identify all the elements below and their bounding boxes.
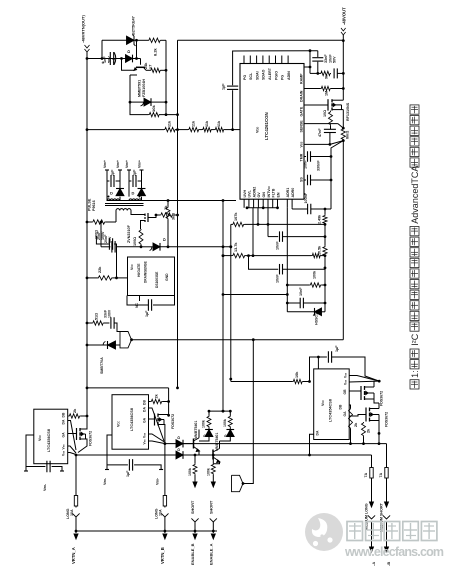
svg-text:ADR1: ADR1 <box>286 188 290 198</box>
capacitor 1uF rt <box>328 345 379 381</box>
svg-text:AdvancedTCA: AdvancedTCA <box>410 166 420 224</box>
capacitor 33nF <box>312 51 328 75</box>
svg-text:SHORT: SHORT <box>191 500 195 514</box>
svg-text:PULSE: PULSE <box>88 198 92 211</box>
svg-text:TMR: TMR <box>300 153 304 161</box>
wire vss branch <box>330 141 344 209</box>
resistor 8.2k <box>137 38 167 56</box>
svg-text:P9616: P9616 <box>92 200 96 211</box>
wire GA stub B <box>149 418 155 420</box>
svg-text:VBB+: VBB+ <box>125 160 129 168</box>
svg-text:100V: 100V <box>101 231 105 240</box>
svg-text:100k: 100k <box>202 420 206 428</box>
svg-text:FZB1004H: FZB1004H <box>142 79 146 97</box>
wire da stub C <box>310 434 314 455</box>
ic U5 LTC4354CS8 C box <box>314 369 350 440</box>
supply2 rails <box>127 170 144 201</box>
resistor 100ohm src <box>133 229 143 248</box>
capacitor 20nF 50V <box>101 222 141 253</box>
svg-text:10.5k: 10.5k <box>318 245 322 255</box>
svg-text:ADIN: ADIN <box>287 71 291 80</box>
svg-text:VCC: VCC <box>38 435 42 441</box>
resistor 22k <box>87 266 128 280</box>
wire vss stub <box>304 141 343 146</box>
svg-text:SHORT: SHORT <box>209 500 213 514</box>
svg-text:1:: 1: <box>410 370 420 378</box>
watermark elecfans logo <box>305 513 444 559</box>
transistor Q1 FMMT591 <box>122 59 147 98</box>
wire ov drop <box>257 208 260 226</box>
svg-text:EN: EN <box>276 192 280 197</box>
resistor 100k r4 <box>206 455 215 476</box>
transistor Q6 MMBT5401 <box>190 421 200 455</box>
svg-text:OV: OV <box>257 192 261 198</box>
capacitor 1uF vdd <box>222 83 239 90</box>
svg-text:DRAIN/SENSE: DRAIN/SENSE <box>144 261 148 283</box>
svg-text:DA: DA <box>316 430 320 435</box>
wire zener link <box>135 39 138 59</box>
svg-text:1μF: 1μF <box>111 169 115 176</box>
resistor 2k B <box>149 393 169 403</box>
wire VSS diag A <box>68 446 76 455</box>
svg-text:UVL: UVL <box>248 190 252 198</box>
svg-text:RF1310NS: RF1310NS <box>346 102 350 121</box>
wire uvl drop <box>252 208 255 257</box>
tvs B2T5KE47 <box>127 16 136 46</box>
resistor 11k a <box>87 120 176 132</box>
svg-text:10nF: 10nF <box>299 287 303 296</box>
svg-text:7A: 7A <box>364 472 368 477</box>
diode D b1 <box>176 436 190 447</box>
wire zener row <box>102 40 137 58</box>
svg-text:VRTN_B: VRTN_B <box>160 547 165 564</box>
svg-text:2.49k: 2.49k <box>318 214 322 224</box>
svg-text:PGIO: PGIO <box>274 71 278 80</box>
wire vrtn bus <box>75 530 217 533</box>
svg-text:100V: 100V <box>108 309 112 318</box>
supply1 rails <box>105 170 122 201</box>
resistor 11k d <box>212 120 240 132</box>
svg-text:-48VRTN(OUT): -48VRTN(OUT) <box>81 15 86 43</box>
svg-text:10nF: 10nF <box>304 160 308 169</box>
capacitor 20nF 100V top <box>96 231 116 278</box>
wire -48VOUT vertical <box>342 35 345 100</box>
wire drain bus top <box>178 39 344 41</box>
node SHORT a <box>191 475 199 531</box>
node MEDIUM SHORT <box>380 480 391 566</box>
mosfet Q3 ZVN3310F <box>127 213 156 243</box>
ic U3 LTC4354CS8 A box <box>34 409 68 464</box>
ic U1 VDD pin label <box>256 127 260 133</box>
svg-text:1μF: 1μF <box>126 470 130 477</box>
resistor 100k r3 <box>188 455 197 476</box>
resistor 107k <box>231 212 327 227</box>
diode D rect2 <box>132 189 146 196</box>
wire bus230 <box>229 224 232 381</box>
testpoint chev A <box>72 513 79 531</box>
mosfet Q2 IRF1310NS <box>328 99 350 121</box>
diode D up2 <box>220 428 235 442</box>
capacitor 1uF s2 <box>129 169 142 187</box>
diode SMBT70A <box>87 341 120 374</box>
svg-text:DS1003SE: DS1003SE <box>155 271 159 288</box>
resistor 2k C <box>349 405 359 444</box>
wire sense diag <box>304 124 345 130</box>
svg-text:B2T5KE47: B2T5KE47 <box>132 16 136 35</box>
node ENABLE_B <box>190 531 197 565</box>
svg-text:MMBT5401: MMBT5401 <box>215 433 219 451</box>
ic U4 LTC4354CS8 B box <box>112 395 149 450</box>
svg-text:1μF: 1μF <box>133 169 137 176</box>
diode D blk <box>141 238 232 251</box>
svg-text:VSS: VSS <box>300 141 304 147</box>
svg-text:VBB-: VBB- <box>156 477 160 485</box>
svg-text:-A: -A <box>371 562 376 566</box>
svg-text:HSSC1: HSSC1 <box>315 313 319 325</box>
wire vcc loop rt <box>310 356 327 382</box>
svg-text:HI/GATE: HI/GATE <box>137 263 141 277</box>
wire bus223 <box>222 201 225 413</box>
svg-text:NC: NC <box>135 302 139 307</box>
capacitor 10nF tmr <box>304 151 332 169</box>
wire DA diag B <box>149 408 165 441</box>
svg-text:ALERT: ALERT <box>268 67 272 80</box>
wire ramp stub <box>304 51 311 74</box>
wire 166 vertical <box>165 40 168 116</box>
capacitor 330nF ss <box>304 160 331 186</box>
svg-text:×7: ×7 <box>149 65 153 69</box>
svg-text:VRTN_A: VRTN_A <box>71 547 76 564</box>
svg-text:VBB-: VBB- <box>43 483 47 491</box>
svg-text:DB: DB <box>339 404 343 409</box>
resistor 10ohm gate <box>323 110 333 126</box>
svg-text:SENSE: SENSE <box>300 120 304 133</box>
ic U1 top pins <box>243 56 291 81</box>
diode D b2 <box>176 448 183 459</box>
svg-text:50V: 50V <box>108 56 112 63</box>
wire bus455 A <box>75 454 372 457</box>
resistor 10k <box>130 102 179 117</box>
testpoint chev B <box>161 513 168 531</box>
svg-text:100k: 100k <box>206 468 210 476</box>
ic U1 right pin labels <box>300 73 304 182</box>
svg-text:51Ω: 51Ω <box>95 313 99 320</box>
svg-text:100k: 100k <box>313 270 317 279</box>
svg-text:11k: 11k <box>192 120 196 127</box>
svg-text:LTC4354CS8: LTC4354CS8 <box>130 408 134 431</box>
node ENABLE_A <box>208 531 215 565</box>
svg-text:47nF: 47nF <box>318 128 322 137</box>
node SHORT b <box>209 475 217 531</box>
svg-text:D: D <box>177 448 181 451</box>
svg-text:11k: 11k <box>168 120 172 127</box>
transistor Q7 MMBT5401 <box>213 433 220 464</box>
resistor 100k adin <box>287 270 325 287</box>
svg-text:GA: GA <box>62 432 66 438</box>
wire -48VRTN rail <box>86 52 89 428</box>
svg-text:VBB+: VBB+ <box>138 160 142 168</box>
resistor 3k <box>166 201 176 247</box>
resistor 51ohm <box>87 313 109 325</box>
svg-text:UVH: UVH <box>243 190 247 198</box>
svg-text:100k: 100k <box>188 468 192 476</box>
svg-text:DA: DA <box>62 419 66 424</box>
svg-text:INTVCC: INTVCC <box>267 186 271 198</box>
svg-text:50V: 50V <box>333 56 337 63</box>
mosfet Q5 FDS3672 B <box>155 414 176 444</box>
svg-text:D: D <box>132 191 135 196</box>
svg-text:GB: GB <box>343 389 347 395</box>
svg-text:FDS3672: FDS3672 <box>171 414 175 429</box>
node VBB+ s1 <box>103 160 120 168</box>
svg-text:SS: SS <box>300 177 304 182</box>
svg-text:RAMP: RAMP <box>300 73 304 84</box>
svg-text:D: D <box>162 238 167 241</box>
ic U2 gate driver box <box>128 257 175 296</box>
connector hex A <box>120 332 133 348</box>
wire b feed <box>164 442 387 445</box>
svg-text:8mΩ: 8mΩ <box>345 131 349 139</box>
wire base feed <box>87 57 141 60</box>
node VBB+ s2 <box>125 160 142 168</box>
diode zener adin <box>287 308 325 325</box>
wire schottky row <box>129 75 166 104</box>
svg-text:VCC: VCC <box>130 264 134 270</box>
svg-text:1nF: 1nF <box>103 56 107 63</box>
svg-text:7A: 7A <box>379 472 383 477</box>
capacitor 100nF adr <box>292 192 331 214</box>
resistor 100k r1 <box>202 411 212 428</box>
transformer T1 <box>88 196 144 212</box>
svg-text:1μF: 1μF <box>145 310 149 317</box>
svg-text:107k: 107k <box>234 212 238 221</box>
wire gate stub <box>304 104 328 106</box>
node VRTN_B <box>160 531 167 564</box>
svg-text:330nF: 330nF <box>317 160 321 171</box>
resistor 1M drain <box>304 86 343 96</box>
mosfet Q8 FDS3672 C <box>349 381 383 406</box>
ic U1 bottom pins <box>243 186 295 208</box>
svg-text:33nF: 33nF <box>324 54 328 63</box>
diode D up1 <box>199 428 213 442</box>
svg-text:10Ω: 10Ω <box>323 110 327 117</box>
svg-text:GATE: GATE <box>300 106 304 116</box>
svg-text:SDAI: SDAI <box>255 71 259 80</box>
svg-text:13.7k: 13.7k <box>234 242 238 252</box>
svg-text:50V: 50V <box>108 236 112 243</box>
wire r1r2 top <box>208 410 232 413</box>
wire drain bus left vertical <box>176 40 179 389</box>
svg-text:ADIN2: ADIN2 <box>252 187 256 198</box>
svg-text:VDD: VDD <box>256 127 260 133</box>
svg-text:D: D <box>177 436 181 439</box>
svg-text:10nF: 10nF <box>276 274 280 283</box>
svg-text:10k: 10k <box>151 105 156 112</box>
svg-text:GA: GA <box>343 411 347 417</box>
svg-text:1μF: 1μF <box>222 83 226 90</box>
capacitor 47nF <box>318 125 336 144</box>
svg-text:3kΩ: 3kΩ <box>172 213 176 220</box>
svg-text:DB: DB <box>143 400 147 405</box>
fuse F2 LONG 10A <box>155 444 167 519</box>
wire vdd loop <box>231 49 318 131</box>
wire GA stub A <box>68 433 77 435</box>
resistor 2.49k <box>318 209 328 246</box>
wire pri leads <box>116 211 139 223</box>
svg-text:VCC: VCC <box>321 400 325 406</box>
svg-text:GA: GA <box>143 417 147 423</box>
capacitor 10nF uv1 <box>268 224 326 250</box>
wire hex A run <box>132 338 344 341</box>
svg-text:FDS3672: FDS3672 <box>385 412 389 427</box>
connector hex B <box>232 475 245 491</box>
capacitor 1uF B <box>103 435 163 485</box>
svg-text:-48VOUT: -48VOUT <box>342 7 347 25</box>
svg-text:PG: PG <box>243 75 247 80</box>
svg-text:MMBT5401: MMBT5401 <box>194 421 198 439</box>
resistor 13.7k <box>222 242 327 258</box>
wire rowC <box>222 293 288 296</box>
diode D top <box>126 50 133 62</box>
svg-text:D: D <box>224 434 228 437</box>
node MEDIUM LONG <box>365 480 376 566</box>
svg-text:DB: DB <box>62 412 66 417</box>
resistor 100ohm pri <box>87 220 116 239</box>
ic U1 LTC4261CGN box <box>240 64 304 200</box>
wire intvcc drop <box>267 208 270 226</box>
svg-text:ENABLE_B: ENABLE_B <box>190 543 195 565</box>
capacitor 1uF s1 <box>107 169 120 187</box>
svg-text:1μF: 1μF <box>335 345 339 352</box>
wire hex B run <box>243 340 253 484</box>
svg-text:100nF: 100nF <box>304 192 308 203</box>
svg-text:-B: -B <box>386 562 391 566</box>
svg-text:I²C: I²C <box>410 333 420 345</box>
resistor 2k pullup <box>155 205 178 217</box>
capacitor 33nF 100V <box>104 309 121 332</box>
svg-text:1M: 1M <box>325 91 329 96</box>
capacitor 1uF drv loop <box>127 296 175 318</box>
title text <box>410 105 420 389</box>
svg-text:11k: 11k <box>205 120 209 127</box>
svg-text:MMBT591: MMBT591 <box>137 80 141 97</box>
svg-text:DA: DA <box>143 407 147 412</box>
wire adr1 vertical <box>286 208 289 312</box>
capacitor 10nF 50V ramp <box>329 54 344 79</box>
svg-text:SDAO: SDAO <box>262 69 266 80</box>
svg-text:LTC4261CGN: LTC4261CGN <box>264 112 269 140</box>
svg-text:VCC: VCC <box>117 421 121 427</box>
svg-text:FDS3672: FDS3672 <box>380 391 384 406</box>
wire xfmr top <box>107 199 237 202</box>
capacitor 1uF A <box>24 435 64 491</box>
svg-text:100k: 100k <box>223 419 227 427</box>
svg-text:FLTB: FLTB <box>272 188 276 197</box>
svg-text:ENABLE_A: ENABLE_A <box>208 543 213 565</box>
resistor 100k rowb <box>312 253 326 257</box>
capacitor 1nF 50V x4 <box>102 52 116 67</box>
capacitor 10nF adin <box>287 287 325 309</box>
svg-text:VBB+: VBB+ <box>116 160 120 168</box>
node -48VOUT terminal <box>341 7 347 35</box>
resistor 100k r2 <box>223 411 233 427</box>
svg-text:SMBT70A: SMBT70A <box>100 357 104 374</box>
wire VSS diag C <box>349 376 380 383</box>
svg-text:10nF: 10nF <box>276 241 280 250</box>
svg-text:D: D <box>203 434 207 437</box>
svg-text:10A: 10A <box>159 509 163 516</box>
svg-text:10k: 10k <box>295 371 299 378</box>
fuse F3 7A <box>364 455 373 480</box>
resistor 8mohm sense <box>341 110 349 142</box>
wire drain link B <box>87 388 170 417</box>
resistor 2k A <box>68 408 87 418</box>
diode D rect1 <box>110 189 124 196</box>
svg-text:www.elecfans.com: www.elecfans.com <box>344 545 444 559</box>
svg-text:FDS3672: FDS3672 <box>89 431 93 446</box>
node -48VRTN(OUT) terminal <box>81 15 90 52</box>
wire VSS diag B <box>149 434 165 444</box>
fuse F4 7A <box>379 444 388 480</box>
resistor 24k x7 <box>144 62 166 73</box>
svg-text:PG: PG <box>281 75 285 80</box>
wire -48V drop <box>342 141 344 340</box>
wire pin row0 <box>246 206 279 209</box>
resistor 10.5k <box>318 245 328 312</box>
resistor 11k b <box>176 120 200 132</box>
svg-text:ADR0: ADR0 <box>291 188 295 198</box>
svg-text:D: D <box>126 50 131 53</box>
resistor 10k vcc <box>231 371 311 384</box>
fuse F1 LONG 10A <box>66 455 78 519</box>
wire DA diag A <box>68 421 76 451</box>
svg-text:VBB+: VBB+ <box>103 160 107 168</box>
svg-text:LTC4354CS8: LTC4354CS8 <box>329 399 333 422</box>
resistor 9k ramp <box>310 71 331 79</box>
diode D2 schottky <box>141 98 152 106</box>
svg-text:SCL: SCL <box>249 72 253 80</box>
capacitor 10nF uv2 <box>249 256 326 283</box>
svg-text:LTC4354CS8: LTC4354CS8 <box>47 429 51 452</box>
mosfet Q9 FDS3672 D <box>349 403 388 444</box>
resistor 11k c <box>200 120 213 132</box>
svg-text:22k: 22k <box>98 266 102 273</box>
svg-text:ZVN3310F: ZVN3310F <box>127 224 131 243</box>
svg-text:DRAIN: DRAIN <box>300 90 304 102</box>
svg-text:8.2k: 8.2k <box>153 47 158 56</box>
resistor 2k D <box>362 422 371 444</box>
svg-text:100Ω: 100Ω <box>133 237 137 246</box>
mosfet Q4 FDS3672 A <box>77 416 93 453</box>
svg-text:ON: ON <box>262 192 266 198</box>
svg-text:VBB-: VBB- <box>103 477 107 485</box>
svg-text:11k: 11k <box>217 120 221 127</box>
svg-text:D: D <box>110 191 113 196</box>
node VRTN_A <box>71 531 78 564</box>
svg-text:GND: GND <box>165 273 169 281</box>
